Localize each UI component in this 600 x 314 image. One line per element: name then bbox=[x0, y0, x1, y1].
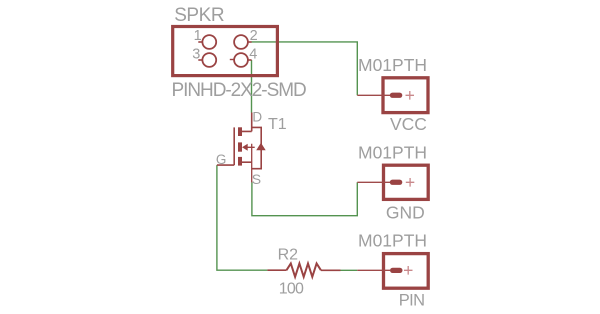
VCC pad pill bbox=[390, 93, 403, 98]
resistor R2 zigzag bbox=[287, 264, 321, 277]
svg-text:2: 2 bbox=[250, 28, 258, 44]
transistor T1 channel bar top bbox=[238, 127, 242, 136]
svg-text:VCC: VCC bbox=[390, 114, 427, 134]
GND pin lead bbox=[357, 181, 390, 183]
transistor T1 drain pin bbox=[242, 113, 252, 132]
connector JP VCC box bbox=[383, 78, 428, 113]
wire net gate to resistor bbox=[217, 165, 268, 270]
svg-text:3: 3 bbox=[192, 47, 200, 63]
svg-text:4: 4 bbox=[249, 47, 257, 63]
resistor R2 right lead bbox=[321, 269, 341, 271]
wire net source to GND bbox=[252, 182, 357, 216]
connector JP PIN box bbox=[384, 254, 429, 289]
transistor T1 body diode triangle bbox=[256, 143, 266, 151]
SPKR pin 2 stub bbox=[248, 41, 252, 43]
SPKR pin 3 circle bbox=[202, 53, 216, 67]
VCC pin lead bbox=[357, 94, 390, 96]
PIN plus mark bbox=[404, 266, 413, 275]
svg-text:SPKR: SPKR bbox=[174, 5, 224, 26]
transistor T1 gate line bbox=[233, 127, 235, 165]
transistor T1 channel bar bottom bbox=[238, 157, 242, 166]
resistor R2 left lead bbox=[267, 269, 286, 271]
svg-text:PINHD-2X2-SMD: PINHD-2X2-SMD bbox=[172, 80, 306, 101]
connector JP GND box bbox=[384, 165, 429, 199]
transistor T1 gate pin bbox=[217, 164, 234, 166]
transistor T1 channel bar middle bbox=[238, 142, 242, 151]
SPKR pin 4 stub bbox=[248, 59, 252, 61]
wire net pin2 to VCC bbox=[252, 42, 358, 95]
VCC plus mark bbox=[406, 91, 415, 100]
svg-text:GND: GND bbox=[386, 202, 425, 222]
svg-text:D: D bbox=[252, 110, 262, 125]
transistor T1 bulk arrow bbox=[242, 144, 248, 151]
SPKR pin 2 circle bbox=[234, 35, 248, 49]
svg-text:G: G bbox=[216, 152, 227, 167]
svg-text:M01PTH: M01PTH bbox=[358, 143, 427, 163]
transistor T1 source pin bbox=[242, 161, 252, 163]
transistor T1 bulk wire bbox=[248, 144, 255, 183]
connector SPKR box bbox=[173, 27, 278, 76]
GND plus mark bbox=[406, 178, 415, 187]
GND pad pill bbox=[390, 180, 403, 185]
transistor T1 body-diode branch bbox=[252, 127, 262, 168]
SPKR pin 1 circle bbox=[202, 35, 216, 49]
svg-text:PIN: PIN bbox=[399, 292, 425, 310]
svg-text:M01PTH: M01PTH bbox=[358, 231, 427, 251]
svg-text:S: S bbox=[252, 171, 261, 187]
svg-text:100: 100 bbox=[279, 280, 304, 297]
wire net resistor to PIN bbox=[341, 269, 358, 271]
SPKR pin 4 left mark bbox=[230, 59, 235, 61]
SPKR pin 3 stub bbox=[198, 59, 202, 61]
PIN pad pill bbox=[390, 268, 403, 273]
svg-text:T1: T1 bbox=[268, 116, 287, 133]
SPKR pin 1 stub bbox=[198, 41, 202, 43]
svg-text:R2: R2 bbox=[278, 246, 299, 263]
PIN pin lead bbox=[357, 269, 390, 271]
SPKR pin 4 circle bbox=[234, 53, 248, 67]
svg-text:M01PTH: M01PTH bbox=[358, 55, 427, 75]
wire net pin4 to drain bbox=[251, 60, 253, 113]
svg-text:1: 1 bbox=[194, 28, 202, 44]
